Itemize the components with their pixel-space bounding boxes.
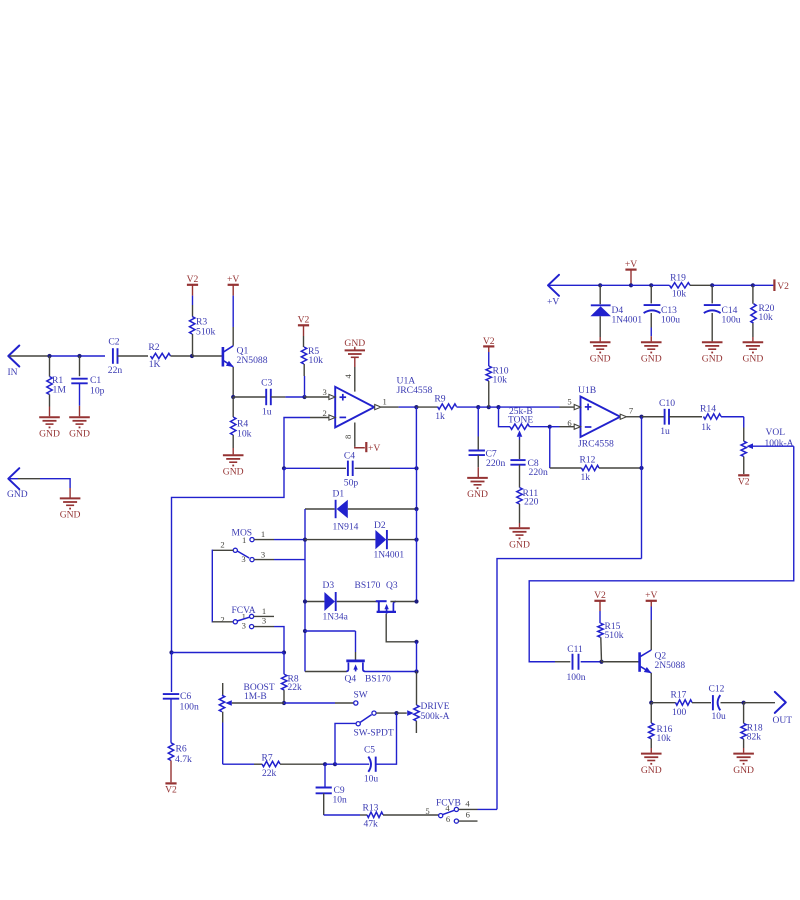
wire Q2 collector — [650, 607, 652, 651]
wire inv input U1A — [284, 418, 329, 469]
wire Q4 gate — [305, 631, 356, 660]
wire U1B out down — [641, 417, 643, 468]
transistor Q4 — [345, 661, 392, 685]
svg-text:1: 1 — [261, 529, 265, 539]
node C13 — [649, 283, 653, 287]
node Q2 emitter — [649, 701, 653, 705]
svg-text:22n: 22n — [108, 365, 123, 376]
capacitor C12 — [709, 685, 744, 722]
node U1A out — [414, 405, 418, 409]
svg-text:220: 220 — [524, 497, 539, 508]
port GND arrow — [7, 468, 70, 500]
svg-text:GND: GND — [7, 490, 28, 500]
capacitor C1 — [71, 356, 104, 416]
svg-text:C10: C10 — [659, 398, 675, 409]
power V2 R5 — [298, 315, 310, 336]
diode D2 — [305, 521, 417, 560]
node base-R3 — [190, 354, 194, 358]
svg-text:3: 3 — [242, 621, 246, 631]
resistor R6 — [168, 743, 192, 783]
ground C7 — [467, 478, 488, 500]
svg-text:100k-A: 100k-A — [765, 439, 794, 449]
capacitor C4 — [284, 450, 417, 488]
svg-text:VOL: VOL — [766, 428, 786, 438]
svg-text:V2: V2 — [298, 315, 310, 326]
svg-text:DRIVE: DRIVE — [421, 702, 450, 712]
power V2 R15 — [594, 590, 606, 611]
svg-text:1N4001: 1N4001 — [612, 315, 643, 325]
wire p2 — [631, 284, 651, 286]
svg-text:3: 3 — [322, 387, 326, 397]
svg-text:50p: 50p — [344, 478, 359, 489]
svg-text:OUT: OUT — [773, 716, 793, 726]
svg-text:R17: R17 — [671, 691, 687, 701]
op-amp U1B — [578, 385, 620, 449]
node R8 bottom — [282, 701, 286, 705]
svg-text:100n: 100n — [567, 673, 586, 683]
svg-text:3: 3 — [261, 549, 265, 559]
svg-text:500k-A: 500k-A — [421, 712, 450, 722]
switch FCVA — [220, 606, 284, 652]
wire left rail — [172, 468, 285, 652]
svg-text:1N914: 1N914 — [333, 523, 359, 533]
svg-text:4: 4 — [343, 374, 353, 379]
svg-text:3: 3 — [241, 554, 245, 564]
svg-text:GND: GND — [69, 428, 90, 439]
svg-text:1u: 1u — [660, 426, 670, 437]
pin 5 U1B — [567, 397, 580, 410]
ground R11 — [509, 528, 530, 550]
node Q3 drain — [414, 599, 418, 603]
svg-text:1k: 1k — [581, 473, 591, 483]
svg-text:2: 2 — [220, 614, 224, 624]
svg-text:+V: +V — [368, 443, 380, 454]
svg-text:JRC4558: JRC4558 — [578, 438, 614, 449]
node R20 — [751, 283, 755, 287]
node C4 left — [282, 466, 286, 470]
svg-text:82k: 82k — [747, 733, 762, 743]
svg-text:+V: +V — [645, 590, 657, 601]
node OUT — [742, 701, 746, 705]
power +V Q1 — [227, 274, 239, 295]
node R10 — [487, 405, 491, 409]
svg-text:GND: GND — [743, 354, 764, 365]
node Q4 gate row — [303, 629, 307, 633]
switch MOS — [220, 528, 305, 564]
resistor R4 — [231, 397, 252, 454]
resistor R1 — [47, 356, 67, 416]
svg-text:1u: 1u — [262, 407, 272, 418]
svg-text:6: 6 — [466, 809, 471, 819]
op-amp U1A — [335, 375, 432, 427]
wire Q4 row — [305, 671, 417, 673]
port +V power — [547, 275, 600, 308]
svg-text:R19: R19 — [670, 273, 686, 283]
svg-text:1K: 1K — [149, 359, 161, 370]
wire left mid rail — [304, 509, 306, 672]
capacitor C10 — [642, 398, 703, 437]
svg-text:C1: C1 — [90, 375, 101, 386]
node C3-R5 — [302, 395, 306, 399]
ground U1A pin4 — [344, 338, 365, 357]
wire rail low — [416, 642, 418, 705]
wire to pin5 — [499, 406, 575, 408]
node C7 — [476, 405, 480, 409]
node C4 right — [414, 466, 418, 470]
svg-text:R9: R9 — [434, 394, 445, 405]
node emitter — [231, 395, 235, 399]
pin 8 wire U1A — [343, 423, 365, 448]
node D4 — [598, 283, 602, 287]
svg-text:2N5088: 2N5088 — [237, 355, 268, 366]
svg-text:22k: 22k — [288, 683, 303, 693]
resistor R9 — [416, 394, 478, 422]
svg-text:6: 6 — [446, 814, 451, 824]
resistor R15 — [598, 611, 624, 662]
node input-C1 — [77, 354, 81, 358]
svg-text:V2: V2 — [738, 477, 750, 488]
transistor Q3 — [355, 581, 398, 614]
node C14 — [710, 283, 714, 287]
svg-text:C6: C6 — [180, 691, 191, 702]
wire input row — [49, 355, 105, 357]
ground D4 — [590, 342, 611, 364]
wire FCVB to out — [497, 468, 642, 809]
node input-R1 — [47, 354, 51, 358]
svg-text:3: 3 — [262, 616, 266, 626]
svg-text:10k: 10k — [309, 355, 324, 366]
pin 4 wire U1A — [343, 358, 355, 392]
svg-text:10k: 10k — [759, 313, 774, 323]
svg-text:V2: V2 — [187, 274, 199, 285]
wire n1 — [478, 406, 489, 408]
resistor R14 — [700, 404, 744, 433]
node D1 right — [414, 507, 418, 511]
svg-text:U1B: U1B — [578, 385, 596, 396]
svg-text:100: 100 — [672, 708, 687, 718]
wire n2 — [489, 406, 499, 408]
node DRIVE wiper — [394, 711, 398, 715]
svg-text:R14: R14 — [700, 404, 716, 415]
svg-text:+V: +V — [227, 274, 239, 285]
node MOS1 — [303, 538, 307, 542]
svg-text:GND: GND — [223, 467, 244, 478]
svg-text:10u: 10u — [364, 774, 379, 784]
potentiometer TONE — [508, 407, 550, 459]
power +V Q2 — [645, 590, 657, 606]
svg-text:5: 5 — [425, 806, 429, 816]
wire to pin3 — [305, 396, 329, 398]
svg-text:10u: 10u — [712, 712, 727, 722]
svg-text:5: 5 — [567, 397, 571, 407]
pin 3 U1A — [322, 387, 335, 399]
wire p3 — [712, 284, 753, 286]
svg-text:6: 6 — [567, 418, 572, 428]
resistor R7 — [223, 753, 325, 779]
svg-text:R2: R2 — [148, 342, 159, 353]
resistor R5 — [301, 336, 323, 397]
svg-text:10p: 10p — [90, 386, 105, 397]
transistor Q1 — [193, 346, 268, 367]
capacitor C7 — [469, 407, 506, 477]
svg-text:+V: +V — [547, 298, 559, 308]
wire right rail mid — [416, 509, 418, 602]
diode D4 — [590, 285, 642, 341]
svg-text:C3: C3 — [261, 377, 272, 388]
svg-text:V2: V2 — [594, 590, 606, 601]
resistor R8 — [282, 653, 303, 704]
svg-text:SW: SW — [354, 690, 368, 700]
node R8 top — [282, 650, 286, 654]
ground R18 — [733, 754, 754, 776]
svg-text:2: 2 — [322, 408, 326, 418]
svg-text:BS170: BS170 — [355, 581, 381, 591]
svg-text:D3: D3 — [323, 581, 335, 591]
svg-text:GND: GND — [702, 354, 723, 365]
ground C13 — [641, 342, 662, 364]
ground R1 — [39, 417, 60, 439]
svg-text:JRC4558: JRC4558 — [397, 385, 433, 396]
switch FCVB — [425, 799, 497, 824]
power V2 VOL — [738, 475, 750, 487]
svg-text:220n: 220n — [529, 467, 548, 478]
wire Q2 emitter — [650, 673, 652, 703]
capacitor C5 — [335, 713, 397, 784]
pin 2 U1A — [322, 408, 335, 420]
node Q2 base — [599, 660, 603, 664]
svg-text:7: 7 — [629, 406, 634, 416]
svg-text:4: 4 — [465, 799, 470, 809]
potentiometer VOL — [741, 417, 794, 474]
svg-text:220n: 220n — [486, 458, 505, 469]
svg-text:510k: 510k — [196, 327, 215, 338]
ground R20 — [743, 342, 764, 364]
svg-text:10k: 10k — [493, 375, 508, 386]
svg-text:C5: C5 — [364, 745, 375, 755]
svg-text:100u: 100u — [722, 315, 741, 325]
node pin6 — [548, 425, 552, 429]
resistor R17 — [651, 691, 711, 719]
diode D1 — [305, 489, 417, 532]
node D3 left — [303, 599, 307, 603]
svg-text:D1: D1 — [333, 489, 345, 499]
node SPDT common — [333, 762, 337, 766]
svg-text:V2: V2 — [165, 785, 177, 796]
svg-text:D2: D2 — [374, 521, 386, 531]
svg-text:1M: 1M — [53, 385, 67, 396]
svg-text:GND: GND — [590, 354, 611, 365]
svg-text:C4: C4 — [344, 450, 355, 461]
svg-text:C12: C12 — [709, 685, 725, 695]
svg-text:1M-B: 1M-B — [244, 692, 267, 702]
node TONE — [496, 405, 500, 409]
svg-text:SW-SPDT: SW-SPDT — [354, 728, 394, 738]
node Q3 source — [414, 640, 418, 644]
wire p1 — [600, 284, 631, 286]
wire rail-R8 row — [172, 652, 285, 654]
svg-text:100u: 100u — [661, 315, 680, 325]
svg-text:100n: 100n — [180, 701, 199, 712]
capacitor C3 — [233, 377, 304, 417]
svg-text:1N34a: 1N34a — [323, 613, 349, 623]
resistor R20 — [751, 285, 775, 341]
svg-text:10k: 10k — [657, 734, 672, 744]
svg-text:+V: +V — [625, 259, 637, 270]
wire to pin6 — [550, 426, 575, 428]
wire Q1 collector — [232, 296, 234, 346]
resistor R3 — [190, 296, 216, 356]
svg-text:GND: GND — [509, 539, 530, 550]
svg-text:1N4001: 1N4001 — [374, 550, 405, 560]
node R12 out — [639, 466, 643, 470]
resistor R2 — [148, 342, 192, 370]
svg-text:V2: V2 — [483, 336, 495, 347]
potentiometer DRIVE — [397, 702, 450, 733]
wire Q3 source — [386, 614, 416, 642]
svg-text:1: 1 — [242, 535, 246, 545]
potentiometer BOOST — [219, 683, 284, 764]
power V2 right — [753, 279, 789, 292]
pin 7 U1B — [620, 406, 641, 420]
ground C1 — [69, 417, 90, 439]
capacitor C8 — [510, 458, 548, 488]
svg-text:C9: C9 — [334, 786, 345, 796]
resistor R18 — [741, 703, 763, 753]
wire n3 — [325, 763, 335, 765]
svg-text:4: 4 — [445, 803, 450, 813]
port IN — [8, 346, 50, 379]
svg-text:GND: GND — [641, 354, 662, 365]
resistor R10 — [486, 352, 509, 407]
svg-text:GND: GND — [467, 489, 488, 500]
node U1B out — [639, 415, 643, 419]
svg-text:10k: 10k — [237, 428, 252, 439]
svg-text:BS170: BS170 — [365, 675, 391, 685]
wire Q1 emitter — [232, 367, 234, 397]
resistor R19 — [651, 273, 712, 299]
capacitor C9 — [316, 764, 347, 815]
switch SW-SPDT — [335, 711, 397, 764]
capacitor C14 — [704, 285, 741, 341]
svg-text:C2: C2 — [108, 337, 119, 348]
wire right rail top — [415, 407, 417, 509]
ground R4 — [223, 455, 244, 477]
power +V U1A — [366, 442, 380, 454]
svg-text:C11: C11 — [567, 645, 583, 655]
svg-text:2N5088: 2N5088 — [655, 661, 686, 671]
resistor R16 — [649, 703, 673, 753]
resistor R12 — [550, 427, 642, 484]
svg-text:V2: V2 — [777, 281, 789, 292]
svg-text:2: 2 — [220, 540, 224, 550]
capacitor C11 — [555, 645, 602, 683]
port OUT — [744, 692, 793, 726]
svg-text:4.7k: 4.7k — [175, 754, 192, 765]
ground C14 — [702, 342, 723, 364]
node C9 top — [323, 762, 327, 766]
svg-text:10n: 10n — [333, 796, 348, 806]
node +V stem — [629, 283, 633, 287]
svg-text:8: 8 — [343, 435, 353, 439]
svg-text:Q4: Q4 — [345, 675, 357, 685]
svg-text:1k: 1k — [435, 411, 445, 422]
ground port — [60, 498, 81, 520]
transistor Q2 — [602, 650, 686, 673]
svg-text:IN: IN — [8, 368, 18, 378]
wire MOS2 link — [212, 550, 233, 623]
svg-text:GND: GND — [39, 428, 60, 439]
power V2 R3 — [187, 274, 199, 295]
resistor R11 — [517, 488, 539, 528]
wire VOL to C11 — [529, 446, 794, 662]
svg-text:22k: 22k — [262, 769, 277, 779]
svg-text:510k: 510k — [605, 631, 624, 641]
svg-text:R7: R7 — [262, 753, 273, 763]
wire Q3 drain — [390, 601, 416, 603]
svg-text:1: 1 — [382, 396, 386, 406]
svg-text:GND: GND — [733, 765, 754, 776]
pin 6 U1B — [567, 418, 580, 430]
pin 1 U1A — [375, 396, 417, 409]
capacitor C2 — [108, 337, 148, 376]
diode D3 — [305, 581, 378, 622]
svg-text:R12: R12 — [580, 455, 596, 465]
power V2 R10 — [483, 336, 495, 352]
svg-text:TONE: TONE — [508, 416, 533, 426]
ground R16 — [641, 754, 662, 776]
svg-text:10k: 10k — [672, 290, 687, 300]
capacitor C13 — [644, 285, 681, 341]
power +V bar — [625, 259, 637, 285]
node D2 right — [414, 538, 418, 542]
resistor R13 — [324, 803, 439, 829]
power V2 R6 — [165, 783, 177, 795]
node Q4 right — [414, 669, 418, 673]
capacitor C6 — [163, 653, 199, 743]
svg-text:Q3: Q3 — [386, 581, 398, 591]
pin SW — [284, 690, 368, 705]
svg-text:GND: GND — [60, 510, 81, 521]
svg-text:1k: 1k — [701, 422, 711, 433]
svg-text:47k: 47k — [364, 820, 379, 830]
svg-text:R13: R13 — [363, 803, 379, 813]
wire TONE drop — [499, 407, 511, 427]
svg-text:GND: GND — [641, 765, 662, 776]
node left rail — [169, 650, 173, 654]
